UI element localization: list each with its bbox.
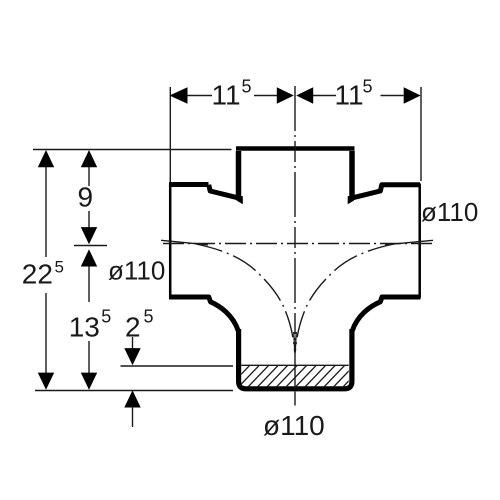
arrow 9 up xyxy=(81,150,97,167)
svg-text:ø110: ø110 xyxy=(421,197,478,227)
inlet centerline sloped left xyxy=(161,240,208,245)
cusp solid tails xyxy=(294,332,295,353)
dimension 2.5 upper line xyxy=(132,337,134,349)
inner channel curve right xyxy=(295,244,394,351)
svg-text:ø110: ø110 xyxy=(108,256,165,286)
horizontal centerline xyxy=(163,243,433,245)
top dimension line segments xyxy=(188,95,213,97)
svg-text:5: 5 xyxy=(55,258,64,277)
svg-text:5: 5 xyxy=(101,307,111,327)
arrow right outer xyxy=(404,87,421,103)
svg-text:22: 22 xyxy=(22,259,53,290)
extension line left end x=170 xyxy=(169,87,171,182)
arrow 22.5 up xyxy=(38,150,54,167)
arrow left outer xyxy=(170,87,188,103)
vertical centerline xyxy=(294,86,296,388)
svg-text:13: 13 xyxy=(69,312,100,343)
svg-text:11: 11 xyxy=(212,80,241,111)
dimension 9 vertical line xyxy=(88,166,90,186)
svg-text:11: 11 xyxy=(335,80,364,111)
arrow center pointing right xyxy=(277,87,294,103)
water level reference line y=366 xyxy=(121,365,234,367)
body outline: right socket bottom fillet, step and flange xyxy=(352,297,420,331)
arrow 22.5 down xyxy=(38,373,54,390)
extension line right end x=421 xyxy=(420,87,422,181)
svg-text:ø110: ø110 xyxy=(263,410,325,441)
body outline: bottom branch walls and bottom edge xyxy=(239,329,352,389)
svg-text:5: 5 xyxy=(242,77,252,97)
arrow 9 down xyxy=(81,227,97,244)
body outline: left end face xyxy=(169,184,172,299)
inlet centerline sloped right xyxy=(385,240,433,245)
arrow 2.5 up from below xyxy=(124,390,140,407)
body outline: top branch left wall xyxy=(236,151,242,198)
body outline: right end face xyxy=(418,184,421,299)
body outline: left socket top flange xyxy=(169,182,209,187)
body outline: left socket top step and taper xyxy=(209,185,242,199)
body outline: left socket bottom flange, step and fillet xyxy=(169,297,238,331)
dimension 2.5 lower stem xyxy=(132,407,134,428)
svg-text:2: 2 xyxy=(125,312,141,343)
vertical centerline bottom tail xyxy=(294,392,296,406)
arrow 13.5 down xyxy=(81,373,97,390)
arrow center pointing left xyxy=(296,87,313,103)
hatch top boundary line xyxy=(241,364,348,366)
tick line y=245.5 xyxy=(74,245,107,247)
dimension 13.5 vertical line xyxy=(88,266,90,302)
body outline: top branch top edge xyxy=(236,146,355,151)
body outline: top branch right wall xyxy=(349,151,355,198)
junction fill left valley xyxy=(236,195,243,205)
svg-text:9: 9 xyxy=(78,182,94,213)
bottom reference line y=390.5 xyxy=(35,390,233,392)
body outline: right socket top taper and step xyxy=(349,185,421,199)
svg-text:5: 5 xyxy=(144,307,154,327)
inner channel curve left xyxy=(196,244,295,351)
arrow 13.5 up xyxy=(81,249,97,266)
svg-text:5: 5 xyxy=(363,77,373,97)
dimension 22.5 vertical line xyxy=(45,166,47,257)
extension line top reference y=149.5 xyxy=(33,149,232,151)
junction fill right valley xyxy=(348,195,355,205)
arrow 2.5 down xyxy=(124,348,140,365)
